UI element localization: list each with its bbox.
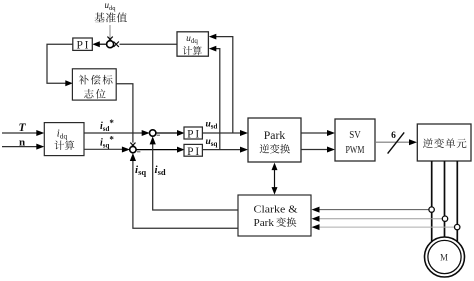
wire: u_dq calc output to J1 <box>120 43 178 45</box>
block PI3 <box>184 144 202 156</box>
wire: i_sd* to junction J2 <box>84 132 143 134</box>
wire: PI1 left-down to compensation block <box>47 44 73 83</box>
wire: u_sq tap up to u_dq calc input 2 <box>214 49 220 150</box>
wire: SVPWM to inverter unit <box>375 141 411 143</box>
block PI2 <box>184 127 202 139</box>
motor M inner circle <box>428 240 461 273</box>
svg-text:PWM: PWM <box>346 144 365 156</box>
current sensor a <box>429 207 434 212</box>
wire: i_sq feedback from Clarke to J3 <box>133 157 238 228</box>
summing junction J1 (circle with x marks) <box>107 41 114 48</box>
phase line b <box>444 161 446 237</box>
svg-text:PI: PI <box>187 146 201 158</box>
svg-text:n: n <box>19 137 25 149</box>
phase line c <box>456 161 458 242</box>
bus width slash <box>388 132 405 153</box>
block u_dq calculation (u_dq 计算) <box>177 32 208 56</box>
wire: Park to SVPWM row A <box>301 132 329 134</box>
wire: n input line <box>2 146 38 148</box>
svg-text:Park: Park <box>254 217 275 229</box>
wire: compensation output right-down to J3 <box>116 84 133 143</box>
wire: PI3 to Park inverse transform <box>202 149 242 151</box>
block inverter unit (逆变单元) <box>417 124 471 161</box>
svg-text:SV: SV <box>349 129 361 141</box>
svg-text:isq: isq <box>135 164 146 177</box>
phase line a <box>431 161 433 242</box>
block Clarke and Park transform <box>238 195 311 236</box>
wire: J2 to PI2 <box>156 132 178 134</box>
wire: J1 to PI1 <box>97 43 107 45</box>
block i_dq calculation (i_dq 计算) <box>44 123 84 156</box>
svg-text:PI: PI <box>187 129 201 141</box>
current sensor wire c to Clarke <box>317 226 455 228</box>
wire: u_sd tap up to u_dq calc input 1 <box>214 37 233 133</box>
wire: T input line <box>2 132 38 134</box>
current sensor c <box>455 224 460 229</box>
block compensation flag (补偿标志位) <box>72 69 116 100</box>
current sensor wire b to Clarke <box>317 218 442 220</box>
minus sign at J2 <box>157 134 160 136</box>
summing junction J3 (current loop q-axis, with x) <box>130 146 136 152</box>
theta double arrow between Park blocks <box>274 166 276 191</box>
block SV PWM <box>335 119 375 161</box>
summing junction J2 (current loop d-axis) <box>150 130 156 136</box>
current sensor b <box>442 216 447 221</box>
svg-text:PI: PI <box>76 40 90 52</box>
minus sign at J3 <box>137 151 140 153</box>
svg-text:Clarke &: Clarke & <box>254 204 298 216</box>
wire: PI2 to Park inverse transform <box>202 132 242 134</box>
block Park inverse transform (Park 逆变换) <box>248 118 301 162</box>
wire: J3 to PI3 <box>136 149 178 151</box>
svg-text:T: T <box>18 122 26 134</box>
wire: reference drop to junction J1 <box>109 25 111 39</box>
wire: i_sd feedback from Clarke to J2 <box>153 140 238 210</box>
svg-text:isd: isd <box>155 164 166 177</box>
svg-text:6: 6 <box>391 131 396 141</box>
block PI1 (top PI controller) <box>73 38 93 50</box>
wire: i_sq* to junction J3 <box>84 148 124 150</box>
motor M outer circle <box>425 237 465 277</box>
wire: Park to SVPWM row B <box>301 149 329 151</box>
svg-text:M: M <box>440 253 448 263</box>
current sensor wire a to Clarke <box>317 209 429 211</box>
svg-text:Park: Park <box>264 130 286 142</box>
